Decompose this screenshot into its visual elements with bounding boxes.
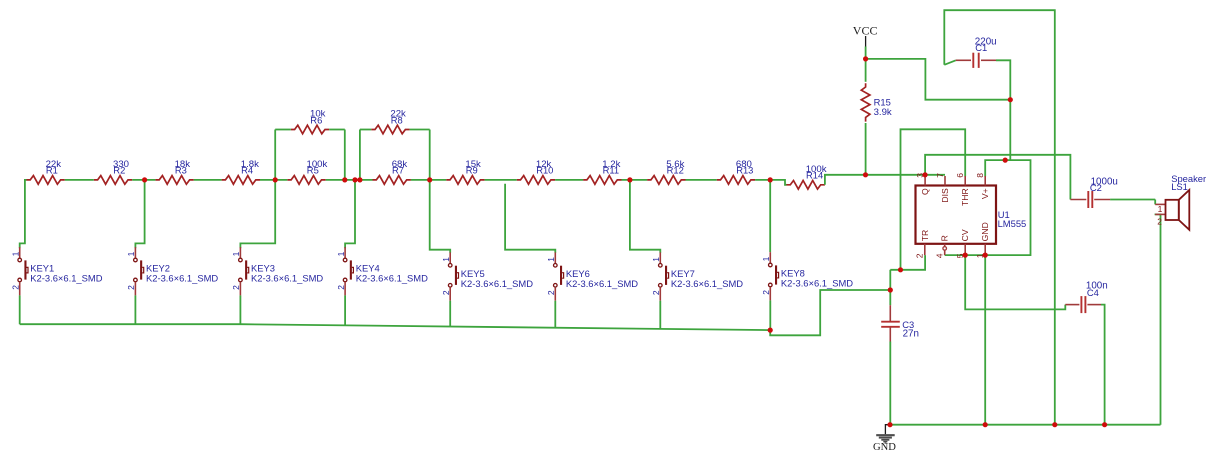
resistor R4 1.8k xyxy=(222,159,260,184)
junction dot 4 xyxy=(352,177,357,182)
resistor R3 18k xyxy=(155,159,193,184)
wire R6 right leg xyxy=(344,130,346,180)
wire R3-R4 xyxy=(194,179,222,181)
svg-text:2: 2 xyxy=(441,290,451,295)
wire CV to C4 xyxy=(965,255,1065,309)
svg-text:K2-3.6×6.1_SMD: K2-3.6×6.1_SMD xyxy=(566,278,638,289)
capacitor C3 27n xyxy=(881,305,919,341)
wire THR to TR node xyxy=(901,129,966,269)
resistor R1 22k xyxy=(26,159,64,184)
wire R15 bottom xyxy=(865,123,867,175)
wire R8 right leg xyxy=(429,130,431,180)
svg-text:3.9k: 3.9k xyxy=(874,107,892,118)
wire TR node down to C3 xyxy=(889,290,891,305)
svg-text:R: R xyxy=(940,235,950,241)
resistor R7 68k xyxy=(373,159,411,184)
svg-text:2: 2 xyxy=(1157,216,1162,226)
resistor R10 12k xyxy=(517,159,555,184)
wire node B to node A xyxy=(889,270,891,290)
svg-text:DIS: DIS xyxy=(940,188,950,203)
junction dot 14 xyxy=(898,267,903,272)
svg-text:1: 1 xyxy=(336,251,346,256)
svg-text:1: 1 xyxy=(11,251,21,256)
speaker LS1 xyxy=(1155,173,1206,230)
resistor R5 100k xyxy=(287,159,327,184)
pushbutton KEY2 xyxy=(126,247,218,295)
wire node A horizontal to TR xyxy=(890,255,925,270)
junction dot 10 xyxy=(923,172,928,177)
wire KEY6 to bus xyxy=(554,301,556,328)
wire R10-R11 xyxy=(555,179,583,181)
wire KEY8 to bus xyxy=(769,300,771,330)
svg-text:1: 1 xyxy=(651,257,661,262)
wire KEY5 to bus xyxy=(449,301,451,327)
svg-text:R3: R3 xyxy=(175,165,187,176)
svg-text:R14: R14 xyxy=(806,170,823,181)
wire node KEY5 feed xyxy=(430,180,451,253)
junction dot 7 xyxy=(627,177,632,182)
wire KEY3 to bus xyxy=(239,295,241,324)
wire VCC column xyxy=(865,47,867,82)
svg-text:R7: R7 xyxy=(392,165,404,176)
svg-text:R6: R6 xyxy=(310,114,322,125)
svg-text:C2: C2 xyxy=(1090,182,1102,193)
svg-text:R4: R4 xyxy=(241,165,253,176)
resistor R8 22k xyxy=(371,109,409,134)
wire KEY8 feed xyxy=(769,180,771,252)
wire GND pin down xyxy=(984,255,986,425)
wire node KEY2 feed xyxy=(135,180,144,248)
wire KEY2 to bus xyxy=(134,295,136,324)
svg-text:THR: THR xyxy=(960,188,970,206)
wire Q up to output line xyxy=(925,155,1070,200)
junction dot 16 xyxy=(768,328,773,333)
svg-text:2: 2 xyxy=(761,290,771,295)
svg-text:4: 4 xyxy=(935,253,945,258)
resistor R13 680 xyxy=(717,159,755,184)
junction dot 19 xyxy=(887,422,892,427)
junction dot 20 xyxy=(983,422,988,427)
pushbutton KEY4 xyxy=(336,247,428,295)
wire KEY7 to bus xyxy=(659,301,661,329)
wire C4 right down xyxy=(1101,305,1105,425)
svg-text:K2-3.6×6.1_SMD: K2-3.6×6.1_SMD xyxy=(251,273,323,284)
junction dot 2 xyxy=(273,177,278,182)
wire KEY1 to bus xyxy=(19,295,21,324)
junction dot 22 xyxy=(1102,422,1107,427)
junction dot 13 xyxy=(1003,158,1008,163)
wire R8 left top xyxy=(360,129,371,131)
pushbutton KEY7 xyxy=(651,252,743,300)
wire top loop C1 left to ground column xyxy=(944,10,1055,425)
svg-text:2: 2 xyxy=(651,290,661,295)
capacitor C2 1000u xyxy=(1070,176,1117,208)
pushbutton KEY1 xyxy=(11,247,103,295)
wire node KEY4 feed xyxy=(345,180,355,248)
junction dot 18 xyxy=(983,253,988,258)
wire C3 bottom to GND rail xyxy=(889,342,891,425)
junction dot 12 xyxy=(1008,97,1013,102)
svg-text:CV: CV xyxy=(960,229,970,241)
resistor R6 10k xyxy=(291,109,329,134)
svg-text:1: 1 xyxy=(761,256,771,261)
capacitor C4 100n xyxy=(1065,280,1107,313)
junction dot 6 xyxy=(427,177,432,182)
wire C2 corner to speaker xyxy=(1154,200,1156,205)
svg-text:7: 7 xyxy=(935,173,945,178)
wire R6 right top xyxy=(329,129,345,131)
wire bus to C3 node xyxy=(770,290,890,335)
wire R13-R14 xyxy=(755,180,786,185)
wire R12-R13 xyxy=(686,179,717,181)
svg-text:R12: R12 xyxy=(667,165,684,176)
svg-text:GND: GND xyxy=(873,442,896,453)
junction dot 8 xyxy=(768,177,773,182)
svg-text:R8: R8 xyxy=(391,114,403,125)
svg-text:LS1: LS1 xyxy=(1171,181,1188,192)
wire R14 to node Q xyxy=(825,175,925,185)
wire R6 left top xyxy=(275,129,291,131)
wire R5-R7 segment xyxy=(326,179,373,181)
wire node KEY6 feed xyxy=(505,184,555,253)
svg-text:R2: R2 xyxy=(113,165,125,176)
wire R11-R12 xyxy=(622,179,648,181)
wire speaker pin2 down xyxy=(1155,214,1161,424)
svg-text:2: 2 xyxy=(336,285,346,290)
wire THR column xyxy=(925,174,945,176)
wire output to C2 xyxy=(1110,199,1155,201)
svg-text:K2-3.6×6.1_SMD: K2-3.6×6.1_SMD xyxy=(356,273,428,284)
junction dot 15 xyxy=(888,287,893,292)
wire R4-R5 xyxy=(260,179,287,181)
svg-text:1: 1 xyxy=(231,251,241,256)
ground GND xyxy=(873,425,896,453)
wire R9-R10 xyxy=(485,179,517,181)
wire R8 left leg xyxy=(359,130,361,180)
power flag VCC xyxy=(853,24,878,47)
junction dot 17 xyxy=(963,253,968,258)
svg-text:Q: Q xyxy=(920,188,930,195)
wire KEY4 to bus xyxy=(344,295,346,325)
junction dot 1 xyxy=(142,177,147,182)
junction dot 5 xyxy=(357,177,362,182)
svg-text:R1: R1 xyxy=(46,165,58,176)
pushbutton KEY5 xyxy=(441,252,533,300)
svg-text:K2-3.6×6.1_SMD: K2-3.6×6.1_SMD xyxy=(671,278,743,289)
resistor R11 1.2k xyxy=(583,159,621,184)
junction dot 11 xyxy=(863,56,868,61)
svg-text:K2-3.6×6.1_SMD: K2-3.6×6.1_SMD xyxy=(30,273,102,284)
svg-text:2: 2 xyxy=(11,285,21,290)
svg-text:2: 2 xyxy=(546,290,556,295)
svg-text:GND: GND xyxy=(980,222,990,241)
pushbutton KEY3 xyxy=(231,247,323,295)
svg-text:8: 8 xyxy=(975,173,985,178)
svg-text:1: 1 xyxy=(1158,204,1163,214)
svg-text:2: 2 xyxy=(231,285,241,290)
svg-text:TR: TR xyxy=(920,230,930,241)
wire C1 diagonal xyxy=(944,60,956,65)
wire GND rail xyxy=(890,424,1161,426)
svg-text:R11: R11 xyxy=(603,165,620,176)
wire R8 right top xyxy=(410,129,430,131)
wire V+ pin8 net xyxy=(945,160,1031,255)
svg-text:C1: C1 xyxy=(975,42,987,53)
svg-text:R15: R15 xyxy=(874,96,891,107)
svg-text:27n: 27n xyxy=(903,329,919,340)
svg-text:K2-3.6×6.1_SMD: K2-3.6×6.1_SMD xyxy=(461,278,533,289)
wire VCC to C1 right xyxy=(866,59,1011,100)
svg-text:R10: R10 xyxy=(536,165,553,176)
svg-text:C4: C4 xyxy=(1087,287,1099,298)
resistor R15 3.9k xyxy=(861,83,892,121)
junction dot 21 xyxy=(1052,422,1057,427)
svg-text:VCC: VCC xyxy=(853,24,878,38)
wire node KEY7 feed xyxy=(630,180,660,253)
svg-text:R13: R13 xyxy=(736,165,753,176)
pushbutton KEY8 xyxy=(761,252,853,300)
svg-text:LM555: LM555 xyxy=(998,218,1027,229)
wire bottom bus xyxy=(20,324,771,330)
svg-text:K2-3.6×6.1_SMD: K2-3.6×6.1_SMD xyxy=(146,273,218,284)
resistor R9 15k xyxy=(446,159,484,184)
svg-text:V+: V+ xyxy=(980,188,990,199)
svg-text:R9: R9 xyxy=(466,165,478,176)
wire R2-R3 xyxy=(132,179,155,181)
resistor R14 100k xyxy=(787,164,827,189)
wire C1 right lead down xyxy=(996,60,1010,160)
svg-text:R5: R5 xyxy=(307,165,319,176)
svg-text:1: 1 xyxy=(126,251,136,256)
capacitor C1 220u xyxy=(956,36,997,68)
resistor R2 330 xyxy=(94,159,132,184)
op-amp U1 LM555 timer xyxy=(915,173,1027,258)
wire node KEY3 feed xyxy=(240,180,275,248)
junction dot 3 xyxy=(342,177,347,182)
wire chain left end to KEY1 xyxy=(20,180,27,248)
junction dot 9 xyxy=(863,172,868,177)
svg-text:6: 6 xyxy=(955,173,965,178)
svg-text:2: 2 xyxy=(126,285,136,290)
wire R1-R2 xyxy=(65,179,94,181)
pushbutton KEY6 xyxy=(546,252,638,300)
svg-text:K2-3.6×6.1_SMD: K2-3.6×6.1_SMD xyxy=(781,278,853,289)
wire R7-R9 xyxy=(411,179,446,181)
svg-text:1: 1 xyxy=(546,257,556,262)
resistor R12 5.6k xyxy=(647,159,685,184)
svg-text:2: 2 xyxy=(915,253,925,258)
wire R6 left leg xyxy=(274,130,276,180)
svg-text:1: 1 xyxy=(441,257,451,262)
